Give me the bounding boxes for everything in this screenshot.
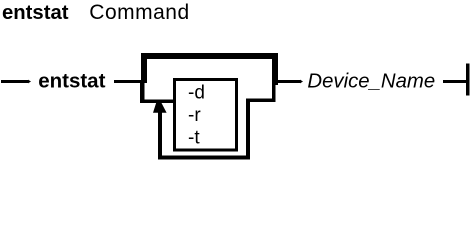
svg-text:-r: -r (188, 105, 201, 126)
wire: loop right leg vertical (246, 99, 250, 160)
option box border (175, 80, 237, 151)
svg-text:-d: -d (188, 82, 205, 103)
wire: loop right vertical (jog up to main line) (272, 83, 276, 102)
arrow nub at end of start dash (28, 80, 31, 84)
wire: main line segment before Device_Name (272, 80, 301, 83)
wire: thick bypass left vertical (141, 53, 147, 83)
svg-text:Device_Name: Device_Name (307, 70, 435, 92)
svg-text:Command: Command (89, 1, 189, 24)
wire: thick bypass top horizontal (141, 53, 278, 59)
svg-text:-t: -t (188, 127, 200, 148)
wire: arrow leg down to bottom loop (158, 112, 162, 159)
svg-text:entstat: entstat (2, 2, 69, 24)
wire: main line start dash (1, 80, 28, 83)
end-of-syntax vertical bar (466, 64, 469, 96)
wire: main line segment after keyword (114, 80, 147, 83)
wire: loop left horizontal jog (140, 100, 176, 103)
svg-text:entstat: entstat (38, 70, 105, 93)
wire: loop bottom horizontal (158, 155, 250, 159)
wire: loop right horizontal jog (246, 99, 276, 102)
wire: loop left vertical (main line to jog) (140, 82, 144, 103)
wire: main line end dash (443, 80, 467, 83)
arrowhead (points up) (153, 103, 167, 113)
arrow nub before Device_Name (300, 80, 303, 84)
wire: thick bypass right vertical (272, 53, 278, 85)
